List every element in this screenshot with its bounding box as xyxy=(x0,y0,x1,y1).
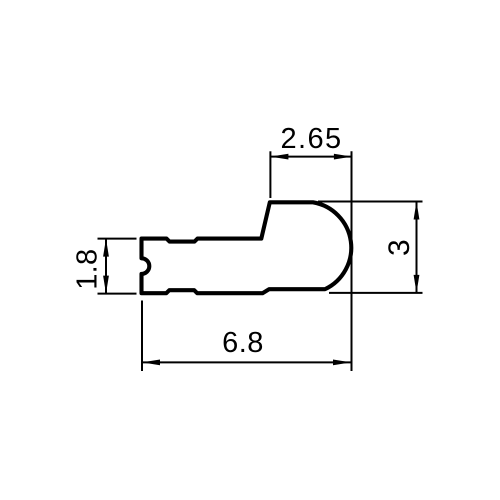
svg-text:2.65: 2.65 xyxy=(280,123,342,155)
svg-text:6.8: 6.8 xyxy=(222,327,264,359)
dimension line: 6.8 xyxy=(142,361,351,363)
extension line: bottom right (3 dim) xyxy=(329,292,423,294)
dimension line: 2.65 xyxy=(270,156,352,158)
extension line: left of 2.65 dim xyxy=(269,151,271,198)
svg-text:3: 3 xyxy=(383,239,416,256)
extension line: top left (1.8 dim) xyxy=(98,238,137,240)
extension line: bottom left (6.8 dim) xyxy=(141,301,143,372)
svg-text:1.8: 1.8 xyxy=(72,249,104,290)
extension line: bottom left (1.8 dim) xyxy=(98,293,137,295)
arrow 1.8 top xyxy=(103,239,109,257)
arrow 2.65 right xyxy=(334,154,352,160)
arrow 6.8 right xyxy=(333,360,351,366)
extension line: top right (3 dim) xyxy=(318,201,423,203)
dimension line: 1.8 xyxy=(105,239,107,294)
profile outline (seal cross-section) xyxy=(142,202,352,293)
arrow 2.65 left xyxy=(270,154,288,160)
dimension line: 3 xyxy=(416,202,418,293)
extension line: shared right (2.65 and 6.8) xyxy=(351,151,353,371)
arrow 3 top xyxy=(414,202,420,220)
arrow 1.8 bottom xyxy=(103,276,109,294)
arrow 6.8 left xyxy=(142,360,160,366)
arrow 3 bottom xyxy=(414,275,420,293)
